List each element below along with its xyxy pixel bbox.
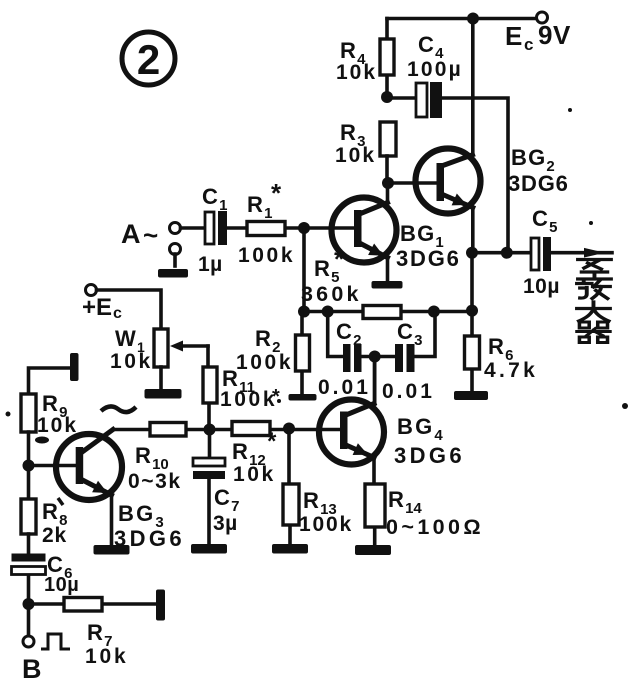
- svg-text:10k: 10k: [37, 414, 78, 437]
- svg-text:3DG6: 3DG6: [396, 246, 461, 271]
- svg-text:+E: +E: [82, 294, 112, 321]
- svg-text:0~100Ω: 0~100Ω: [386, 515, 484, 539]
- svg-text:1µ: 1µ: [198, 253, 223, 276]
- svg-text:9V: 9V: [538, 20, 571, 50]
- svg-text:100k: 100k: [299, 513, 353, 536]
- svg-text:0~3k: 0~3k: [128, 470, 182, 493]
- svg-text:3DG6: 3DG6: [114, 526, 185, 551]
- svg-text:3DG6: 3DG6: [394, 443, 465, 468]
- svg-text:10k: 10k: [336, 61, 377, 84]
- svg-text:*: *: [334, 244, 345, 274]
- svg-text:10k: 10k: [110, 350, 153, 373]
- svg-text:2: 2: [137, 36, 160, 83]
- svg-text:10µ: 10µ: [523, 275, 560, 298]
- svg-text:10k: 10k: [233, 463, 276, 486]
- svg-text:100k: 100k: [238, 244, 295, 267]
- svg-text:3DG6: 3DG6: [508, 171, 569, 196]
- svg-text:100k: 100k: [236, 351, 293, 374]
- svg-text:~: ~: [143, 220, 158, 250]
- svg-text:*: *: [267, 428, 277, 455]
- svg-text:*: *: [272, 386, 280, 408]
- svg-text:3µ: 3µ: [213, 512, 238, 535]
- svg-text:360k: 360k: [301, 282, 362, 306]
- svg-text:2k: 2k: [42, 524, 67, 547]
- svg-text:c: c: [524, 35, 535, 54]
- svg-text:A: A: [121, 219, 141, 249]
- svg-text:4.7k: 4.7k: [484, 359, 538, 382]
- svg-text:0.01: 0.01: [382, 380, 435, 403]
- svg-text:*: *: [271, 178, 282, 208]
- svg-text:0.01: 0.01: [318, 376, 371, 399]
- svg-text:B: B: [22, 654, 42, 684]
- svg-text:100k: 100k: [220, 388, 277, 411]
- svg-text:E: E: [505, 21, 524, 51]
- svg-text:10k: 10k: [85, 645, 128, 668]
- svg-text:10k: 10k: [335, 144, 376, 167]
- svg-text:100µ: 100µ: [407, 58, 463, 81]
- svg-text:10µ: 10µ: [44, 574, 79, 596]
- svg-text:c: c: [113, 305, 123, 322]
